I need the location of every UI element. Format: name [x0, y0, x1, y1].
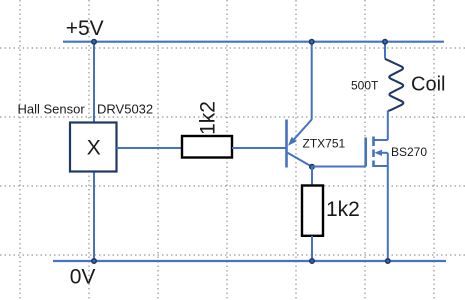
resistor R1 1k2 horizontal [182, 136, 232, 158]
svg-text:ZTX751: ZTX751 [303, 137, 346, 151]
svg-text:Hall Sensor: Hall Sensor [18, 102, 86, 117]
wire collector node down to R2 [311, 167, 313, 186]
wire 0V rail [53, 260, 446, 262]
Q2 body arrow [375, 150, 383, 156]
resistor R2 1k2 vertical [302, 186, 323, 236]
node +5V / coil [383, 40, 387, 44]
svg-text:0V: 0V [70, 266, 96, 289]
wire coil feed from +5V [384, 42, 386, 59]
Q2 channel segment drain [372, 137, 375, 147]
Q1 collector diagonal [288, 153, 313, 167]
svg-text:Coil: Coil [411, 74, 445, 96]
wire Q2 source to 0V [387, 166, 389, 261]
wire R2 to 0V [311, 236, 313, 261]
svg-text:500T: 500T [351, 79, 379, 93]
Q2 source lead [374, 165, 388, 167]
hall sensor U1 box DRV5032 [70, 123, 117, 172]
svg-text:1k2: 1k2 [197, 101, 220, 135]
node 0V / hall [92, 259, 96, 263]
svg-text:+5V: +5V [66, 17, 104, 40]
node +5V / emitter [310, 40, 314, 44]
svg-text:BS270: BS270 [391, 145, 427, 159]
wire hall sensor top supply [93, 42, 95, 123]
svg-text:X: X [87, 137, 101, 160]
node collector junction [310, 165, 314, 169]
wire R1 to transistor base [232, 147, 287, 149]
wire +5V rail [63, 41, 444, 43]
wire hall sensor bottom to 0V [93, 172, 95, 262]
node +5V / hall [92, 40, 96, 44]
svg-text:DRV5032: DRV5032 [97, 102, 153, 117]
wire collector node to gate [312, 166, 366, 168]
Q1 emitter diagonal with arrow [294, 120, 312, 140]
Q2 channel segment source [372, 161, 375, 168]
wire hall output to R1 [117, 147, 183, 149]
Q2 channel segment body [372, 150, 375, 158]
transistor Q1 ZTX751 base bar [285, 120, 288, 168]
inductor L1 coil [385, 59, 403, 111]
node 0V / R2 [310, 259, 314, 263]
wire coil bottom to Q2 drain [387, 111, 389, 141]
mosfet Q2 BS270 gate bar [364, 138, 367, 167]
node 0V / source [386, 259, 390, 263]
wire Q1 emitter vertical from +5V [311, 42, 313, 120]
svg-text:1k2: 1k2 [326, 198, 360, 221]
